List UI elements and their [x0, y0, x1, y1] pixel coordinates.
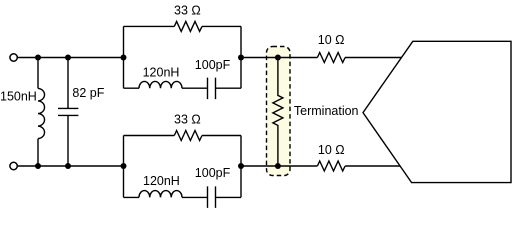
svg-text:120nH: 120nH: [143, 66, 180, 80]
inductor 120nH (bottom network): [139, 191, 182, 198]
resistor 10 ohm (top rail): [317, 53, 345, 63]
wire: top rail right segment: [345, 57, 402, 59]
input terminal (top): [10, 54, 17, 61]
termination highlight box: [267, 47, 291, 176]
node junction: bottom rail / loop right: [238, 163, 244, 169]
node junction: top rail / loop right: [238, 55, 244, 61]
svg-text:Termination: Termination: [294, 104, 359, 118]
svg-text:150nH: 150nH: [0, 89, 37, 103]
node junction: bottom rail / loop left: [121, 163, 127, 169]
receiver symbol (pentagon): [363, 41, 511, 182]
svg-text:10 Ω: 10 Ω: [318, 33, 345, 47]
wire: top RLC loop frame: [124, 26, 242, 88]
svg-text:100pF: 100pF: [195, 166, 231, 180]
node junction: bottom rail / termination: [275, 163, 281, 169]
svg-text:82 pF: 82 pF: [72, 86, 104, 100]
inductor 120nH (top network): [139, 81, 182, 88]
node junction: top rail / loop left: [121, 55, 127, 61]
node junction: top rail / 82pF: [65, 55, 71, 61]
wire: top rail left segment: [17, 57, 123, 59]
svg-text:33 Ω: 33 Ω: [174, 3, 201, 17]
wire: top rail middle segment: [241, 57, 317, 59]
wire: bottom RLC loop frame: [124, 136, 242, 198]
node junction: top rail / termination: [275, 55, 281, 61]
capacitor 100pF (bottom network): [208, 186, 216, 208]
capacitor 82pF (shunt, left): [58, 58, 78, 167]
svg-text:120nH: 120nH: [143, 174, 180, 188]
wire: bottom rail right segment: [345, 165, 400, 167]
resistor 33 ohm (top network): [174, 21, 202, 31]
wire: bottom rail left segment: [17, 165, 123, 167]
resistor 33 ohm (bottom network): [174, 131, 202, 141]
svg-text:33 Ω: 33 Ω: [174, 113, 201, 127]
termination resistor (shunt): [273, 58, 283, 167]
node junction: top rail / 150nH: [35, 55, 41, 61]
svg-text:100pF: 100pF: [195, 58, 231, 72]
svg-text:10 Ω: 10 Ω: [318, 143, 345, 157]
inductor 150nH (shunt, left): [38, 58, 45, 167]
wire: bottom rail middle segment: [241, 165, 317, 167]
resistor 10 ohm (bottom rail): [317, 161, 345, 171]
capacitor 100pF (top network): [208, 78, 216, 100]
node junction: bottom rail / 150nH: [35, 163, 41, 169]
node junction: bottom rail / 82pF: [65, 163, 71, 169]
input terminal (bottom): [10, 162, 17, 169]
